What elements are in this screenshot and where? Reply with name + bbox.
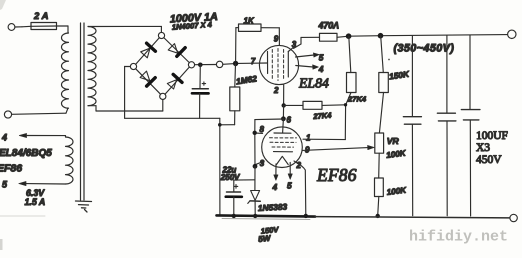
- EL84 cathode line: [267, 52, 269, 74]
- svg-text:1N4007 X 4: 1N4007 X 4: [172, 20, 213, 32]
- capacitor C2 22u branch: [226, 180, 255, 216]
- svg-text:hifidiy.net: hifidiy.net: [409, 229, 508, 246]
- svg-text:250V: 250V: [220, 173, 240, 182]
- wire node6 into EF86: [282, 119, 285, 133]
- EL84 heater arrow pin 4: [296, 65, 319, 69]
- diode D2 (top to right): [168, 44, 185, 57]
- svg-text:5: 5: [2, 180, 8, 190]
- potentiometer VR: [375, 133, 384, 153]
- svg-text:4: 4: [1, 133, 7, 143]
- capacitor C1 reservoir: [192, 65, 209, 119]
- ink speck near 150K lead: [388, 59, 390, 61]
- svg-text:3: 3: [260, 159, 265, 168]
- svg-text:EL84: EL84: [298, 76, 329, 91]
- svg-text:5: 5: [319, 53, 324, 63]
- terminal J1 mains input top: [8, 24, 22, 31]
- svg-text:(350~450V): (350~450V): [394, 43, 455, 55]
- EF86 heater chevron: [277, 156, 289, 164]
- svg-text:EF86: EF86: [316, 165, 357, 185]
- junction dot 27K4 node: [344, 103, 347, 106]
- node bridge bottom: [160, 93, 166, 99]
- wire secondary bottom to corner: [88, 106, 125, 111]
- resistor R7 100K: [375, 178, 384, 197]
- node bridge left: [130, 63, 136, 69]
- zener D5 1N5383: [248, 191, 260, 216]
- tube U1 EL84 envelope: [259, 45, 298, 84]
- transformer T1 core: [81, 23, 85, 200]
- svg-text:4: 4: [318, 64, 324, 74]
- pin3 stub: [255, 161, 264, 165]
- transformer T1 primary winding: [61, 33, 68, 108]
- svg-text:2 A: 2 A: [33, 11, 49, 22]
- label 100UF X3 450V: [476, 130, 508, 166]
- junction dot 1M62 to down wire: [218, 123, 222, 127]
- junction dot at 1K/1M62 tap: [233, 61, 238, 66]
- wire EL84 pin2 down: [283, 85, 285, 106]
- diode D3 (left to bottom): [140, 71, 155, 86]
- svg-text:5: 5: [287, 181, 292, 191]
- wire bottom rail to bridge bottom node: [125, 100, 163, 111]
- ground bus: [217, 215, 510, 218]
- resistor R4 27K4 horizontal: [284, 101, 346, 109]
- junction dot at reservoir cap tap: [198, 63, 203, 68]
- resistor R2 470 ohm: [294, 33, 349, 48]
- junction dot pin2/27K4: [282, 103, 286, 107]
- terminal J4 ground output: [510, 214, 517, 221]
- resistor R1 1K: [236, 24, 280, 61]
- svg-text:1N5383: 1N5383: [258, 201, 288, 213]
- wire lower rail y118: [125, 111, 220, 118]
- EF86 grid dashed lines: [270, 138, 297, 147]
- node bridge top: [158, 32, 164, 38]
- connector circle on B+ wire: [216, 61, 222, 67]
- diode D4 (bottom to right): [167, 74, 182, 89]
- scan faint fold line: [0, 215, 45, 217]
- junction dot zener on bus: [253, 214, 257, 218]
- capacitor C3 100uF: [403, 36, 421, 216]
- svg-text:9: 9: [274, 35, 279, 44]
- capacitor C4 100uF: [437, 36, 456, 216]
- svg-text:7: 7: [251, 57, 256, 66]
- EL84 plate line: [288, 48, 293, 77]
- wire bridge edge left-bottom: [136, 69, 161, 94]
- svg-text:470Λ: 470Λ: [318, 21, 340, 31]
- EF86 heater arrow 5: [288, 163, 292, 180]
- junction dot pin8: [253, 131, 257, 135]
- svg-text:EL84/6BQ5: EL84/6BQ5: [0, 148, 52, 159]
- junction dot B+ rail x380: [378, 33, 384, 39]
- wire pin9 to VR wiper arrow: [302, 145, 374, 150]
- svg-text:VR: VR: [387, 136, 400, 146]
- scan smudge top-left: [0, 0, 6, 10]
- junction dot B+ rail x348: [346, 33, 352, 39]
- EF86 heater arrow 4: [274, 164, 278, 180]
- wire secondary top to bridge top node: [88, 26, 161, 32]
- wire node6 left to cathode rail: [255, 119, 284, 133]
- junction dot pin3: [253, 164, 258, 169]
- transformer T1 heater winding 6.3V: [66, 137, 74, 184]
- EF86 cathode line: [274, 151, 293, 153]
- transformer T1 secondary winding: [88, 27, 96, 106]
- EL84 heater arrow pin 5: [296, 53, 320, 57]
- svg-text:27K4: 27K4: [312, 111, 333, 121]
- resistor R6 150K: [379, 36, 389, 133]
- svg-text:X3: X3: [476, 142, 490, 154]
- node 6 junction dot: [281, 116, 286, 121]
- terminal J2 mains input bottom: [4, 108, 68, 118]
- junction dot C2 on bus: [232, 214, 236, 218]
- EL84 grid dashed lines: [272, 49, 283, 81]
- heater wire pin 5 with arrow: [19, 182, 66, 186]
- svg-text:1: 1: [306, 134, 311, 143]
- heater wire pin 4 with arrow: [19, 133, 65, 137]
- wire left node loop: [125, 67, 131, 112]
- svg-text:100UF: 100UF: [476, 130, 508, 142]
- junction dot R7 on bus: [376, 214, 380, 218]
- svg-text:100K: 100K: [386, 186, 408, 197]
- ground (transformer core): [76, 201, 92, 212]
- resistor R3 1M62: [220, 64, 240, 125]
- B+ rail to output terminal: [349, 35, 508, 37]
- wire bridge edge left-top: [136, 38, 160, 65]
- terminal J3 B+ output: [508, 30, 516, 38]
- wire bridge edge bottom-right: [165, 67, 189, 94]
- scan smudge left edge bottom: [0, 239, 3, 250]
- diode D1 (left to top): [141, 43, 156, 58]
- svg-text:2: 2: [273, 86, 279, 95]
- cathode rail x255 with pin8 stub: [255, 133, 263, 167]
- svg-text:5W: 5W: [258, 234, 272, 244]
- wire pin2 node to node 6: [282, 105, 284, 118]
- svg-text:1.5 A: 1.5 A: [25, 197, 46, 207]
- junction dot pin2 on bus: [304, 214, 308, 218]
- svg-text:450V: 450V: [476, 154, 502, 166]
- resistor R5 27K4 vertical: [346, 36, 356, 104]
- EF86 plate line: [274, 132, 291, 134]
- wire R7 to bus: [378, 197, 379, 216]
- svg-text:4: 4: [272, 182, 278, 192]
- svg-text:6: 6: [287, 116, 292, 125]
- svg-text:1K: 1K: [244, 17, 255, 26]
- svg-text:27K4: 27K4: [347, 95, 367, 104]
- node bridge right: [188, 62, 194, 68]
- wire VR to R7: [378, 153, 381, 178]
- svg-text:8: 8: [260, 125, 265, 134]
- wire EF86 pin2 down to bus: [294, 161, 306, 216]
- svg-text:EF86: EF86: [0, 163, 22, 175]
- wire bridge edge top-right: [164, 38, 190, 63]
- ground bus shading: [222, 218, 310, 221]
- wire bridge right node to B+ line: [195, 63, 268, 65]
- svg-text:100K: 100K: [386, 149, 408, 160]
- svg-text:1M62: 1M62: [235, 73, 258, 86]
- wire EF86 plate pin1 L: [303, 105, 346, 140]
- wire vertical x220 down to ground bus: [219, 118, 221, 215]
- svg-text:150K: 150K: [388, 69, 410, 82]
- fuse F1 2A: [22, 23, 68, 34]
- capacitor C5 100uF: [461, 36, 480, 217]
- cathode rail down to zener: [254, 166, 256, 190]
- tube U2 EF86 envelope: [262, 127, 303, 168]
